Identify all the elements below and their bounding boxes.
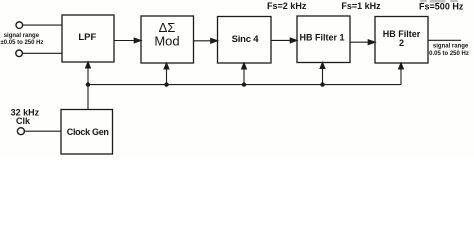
wire clk to Sinc 4 xyxy=(242,63,247,85)
block HB Filter 2 xyxy=(375,17,428,64)
svg-text:Sinc 4: Sinc 4 xyxy=(232,34,260,45)
wire clk to HB Filter 1 xyxy=(320,63,325,85)
clk terminal xyxy=(17,128,24,135)
wire clk to DS Mod xyxy=(164,63,169,85)
junction dot B xyxy=(164,82,168,86)
svg-text:2: 2 xyxy=(399,38,404,48)
block Clock Gen xyxy=(61,110,113,155)
svg-text:Clock Gen: Clock Gen xyxy=(67,127,109,137)
junction dot A xyxy=(86,82,90,86)
svg-text:Fs=2 kHz: Fs=2 kHz xyxy=(267,1,307,11)
svg-text:signal range: signal range xyxy=(433,43,469,49)
wire clock bus xyxy=(88,85,401,110)
block HB Filter 1 xyxy=(297,16,350,63)
svg-text:LPF: LPF xyxy=(78,32,96,43)
wire clk to LPF xyxy=(86,62,91,85)
svg-text:Fs=1 kHz: Fs=1 kHz xyxy=(341,1,381,11)
wire LPF to DS Mod xyxy=(114,38,141,43)
svg-text:Fs=500 Hz: Fs=500 Hz xyxy=(419,1,464,11)
wire Sinc 4 to HB Filter 1 xyxy=(271,38,297,43)
wire HB Filter 1 to HB Filter 2 xyxy=(350,40,375,45)
block Sinc 4 xyxy=(218,17,272,64)
input terminal bottom xyxy=(16,50,23,57)
svg-text:Mod: Mod xyxy=(154,33,179,48)
wire input top xyxy=(23,24,62,26)
wire clk to HB Filter 2 xyxy=(399,63,404,85)
input terminal top xyxy=(16,22,23,29)
svg-text:±0.05 to 250 Hz: ±0.05 to 250 Hz xyxy=(1,40,44,46)
svg-text:HB Filter 1: HB Filter 1 xyxy=(299,33,344,43)
block LPF xyxy=(62,15,114,62)
block DS Mod U2 xyxy=(141,16,194,63)
wire input bottom xyxy=(23,52,62,54)
wire DS Mod to Sinc 4 xyxy=(194,38,218,43)
wire output xyxy=(428,39,461,41)
svg-text:0.05 to 250 Hz: 0.05 to 250 Hz xyxy=(429,51,469,57)
junction dot C xyxy=(242,82,246,86)
svg-text:Clk: Clk xyxy=(16,116,31,126)
junction dot D xyxy=(320,82,324,86)
svg-text:signal range: signal range xyxy=(4,33,40,39)
scan smudge top right xyxy=(420,0,458,3)
wire clk input xyxy=(25,130,61,132)
